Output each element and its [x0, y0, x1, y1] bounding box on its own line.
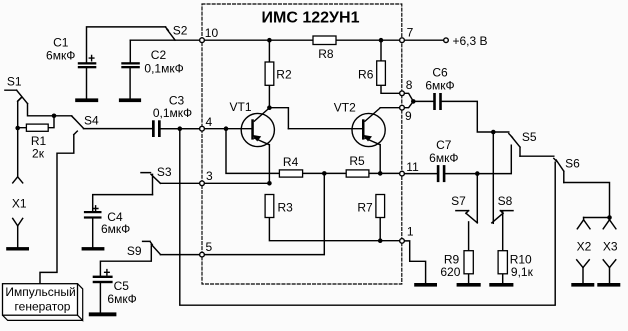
node R1 top: [52, 114, 57, 119]
svg-text:S6: S6: [565, 156, 580, 170]
wire C4 ground stem: [92, 219, 94, 248]
node VT1 emitter pin3: [267, 181, 272, 186]
ground C1: [75, 98, 98, 102]
resistor R8: [313, 36, 336, 45]
svg-text:3: 3: [206, 169, 213, 183]
wire C2 ground stem: [129, 68, 131, 98]
svg-text:S7: S7: [451, 194, 466, 208]
ground C4: [82, 247, 105, 250]
wire top rail pin10-pin7: [130, 39, 402, 41]
capacitor C2 plates: [121, 62, 140, 64]
resistor R9: [464, 251, 473, 274]
svg-text:+6,3 В: +6,3 В: [453, 34, 488, 48]
switch S1: [5, 90, 28, 103]
node R7 bottom: [378, 238, 383, 243]
switch S6: [554, 158, 564, 182]
wire R3 R7 emitter rail: [269, 218, 399, 241]
wire pin9 ext: [405, 101, 414, 107]
resistor R2: [265, 62, 274, 85]
wire C3 to pin4: [161, 128, 200, 130]
svg-text:S5: S5: [522, 130, 537, 144]
svg-text:2к: 2к: [32, 146, 45, 160]
node S5 in: [491, 130, 496, 135]
svg-text:8: 8: [406, 78, 413, 92]
terminal +6.3V: [444, 38, 449, 43]
wire VT2 emitter drop: [379, 145, 381, 174]
ground R9: [457, 283, 481, 287]
ground R10: [489, 283, 513, 287]
wire S5 node to S8: [492, 132, 494, 223]
wire pin3 rail: [160, 182, 269, 184]
wire VT2 base rail: [288, 128, 362, 130]
svg-text:5: 5: [206, 240, 213, 254]
pin 1: [400, 239, 405, 244]
capacitor C7 plates: [437, 165, 440, 182]
svg-text:6мкФ: 6мкФ: [46, 49, 75, 63]
pin 5: [200, 252, 205, 257]
pin 4: [200, 126, 205, 131]
svg-text:C2: C2: [151, 48, 167, 62]
resistor R5: [346, 170, 369, 177]
ground C2: [119, 98, 141, 102]
wire pin7 to +6.3V terminal: [405, 39, 444, 41]
svg-text:1: 1: [407, 224, 414, 238]
wire R2 branch: [268, 40, 270, 108]
svg-text:R6: R6: [358, 67, 374, 81]
svg-text:0,1мкФ: 0,1мкФ: [144, 62, 183, 76]
connector X2 pin: [577, 260, 590, 283]
svg-text:S9: S9: [127, 244, 142, 258]
pin 7: [400, 38, 405, 43]
node VT2 emitter pin11: [378, 171, 383, 176]
node VT1 collector: [267, 105, 272, 110]
wire R9 ground stem: [468, 274, 470, 283]
wire S1 to S4: [28, 104, 72, 116]
connector X2 socket: [577, 218, 590, 229]
pin 10: [200, 38, 205, 43]
ground X1: [6, 247, 29, 250]
resistor R10: [498, 251, 507, 274]
resistor R6: [377, 61, 386, 85]
wire C2 riser: [129, 40, 131, 62]
svg-text:R7: R7: [357, 201, 373, 215]
svg-text:генератор: генератор: [15, 300, 71, 314]
wire C7 node to S7: [476, 174, 478, 223]
node R1 left: [15, 126, 20, 131]
svg-text:6мкФ: 6мкФ: [107, 292, 136, 306]
svg-text:X1: X1: [12, 196, 27, 210]
svg-text:ИМС 122УН1: ИМС 122УН1: [262, 9, 360, 26]
svg-text:9,1к: 9,1к: [511, 265, 534, 279]
wire C7 right to S5 lower contact: [445, 145, 511, 173]
pin 3: [200, 181, 205, 186]
ground X2: [571, 283, 594, 287]
resistor R1 wires: [18, 116, 54, 128]
svg-text:Импульсный: Импульсный: [5, 285, 75, 299]
wire R4R5 mid to pin5: [205, 173, 325, 254]
svg-text:VT1: VT1: [229, 100, 251, 114]
svg-text:R4: R4: [283, 155, 299, 169]
svg-text:R3: R3: [278, 201, 294, 215]
svg-text:11: 11: [406, 160, 419, 174]
resistor R7: [376, 195, 385, 218]
svg-text:6мкФ: 6мкФ: [429, 151, 458, 165]
wire VT1 base rail from pin4: [161, 128, 252, 130]
wire S6 to X2 X3: [564, 183, 610, 218]
wire pin8 ext: [405, 93, 414, 101]
wire R6 branch to pin 8: [381, 40, 399, 93]
svg-text:S8: S8: [498, 194, 513, 208]
svg-text:R8: R8: [318, 47, 334, 61]
wire R5 right to pin 11: [369, 172, 400, 174]
switch S2: [166, 27, 176, 40]
svg-text:620: 620: [440, 265, 460, 279]
svg-text:S4: S4: [84, 113, 99, 127]
connector X3 socket: [603, 218, 616, 229]
pin 8: [400, 91, 405, 96]
svg-text:R2: R2: [276, 67, 292, 81]
svg-text:X3: X3: [603, 239, 618, 253]
transistor VT1: [241, 108, 274, 147]
wire S8 to R10: [502, 212, 504, 251]
switch S8: [492, 211, 513, 223]
svg-text:X2: X2: [577, 239, 592, 253]
node C3 out: [178, 126, 183, 131]
svg-text:10: 10: [205, 26, 219, 40]
svg-text:6мкФ: 6мкФ: [425, 78, 454, 92]
wire S5 to S6: [520, 155, 554, 157]
svg-text:S2: S2: [173, 24, 188, 38]
capacitor C5 plates: [93, 276, 113, 278]
wire X1 riser: [18, 98, 22, 177]
wire C1 ground stem: [86, 68, 88, 98]
wire VT1 collector link to VT2 base: [269, 108, 288, 129]
resistor R4: [279, 170, 302, 177]
node top rail R2: [267, 38, 272, 43]
wire S7 to R9: [468, 222, 470, 251]
svg-text:VT2: VT2: [334, 101, 356, 115]
wire C5 ground stem: [99, 283, 101, 312]
capacitor C3 plates: [152, 120, 155, 137]
wire R4-R5 link: [303, 172, 347, 174]
node C6 in: [411, 99, 416, 104]
wire VT2 collector to pin 9: [380, 107, 399, 109]
svg-text:R5: R5: [349, 154, 365, 168]
connector X3 pin: [603, 260, 616, 283]
wire S9 to pin5: [160, 254, 199, 256]
wire S9 contact to C5: [100, 246, 151, 276]
wire S4 lower contact to generator: [40, 131, 77, 284]
wire S4 to C3: [84, 128, 153, 130]
capacitor C6 plates: [433, 93, 436, 110]
wire C6 right to S5: [442, 101, 509, 132]
ground pin1: [414, 283, 437, 287]
switch S5: [509, 134, 520, 157]
IC dashed box: [202, 4, 402, 284]
connector X1 socket: [13, 177, 23, 183]
switch S3: [141, 173, 160, 195]
resistor R3: [265, 195, 274, 218]
svg-text:4: 4: [206, 115, 213, 129]
wire C6 left: [413, 100, 433, 102]
svg-text:S1: S1: [7, 75, 22, 89]
connector X1 pin: [13, 218, 23, 247]
svg-text:C5: C5: [114, 279, 130, 293]
switch S4: [72, 116, 84, 128]
ground X3: [597, 283, 620, 287]
svg-text:C1: C1: [53, 35, 69, 49]
pin 9: [400, 105, 405, 110]
node C7 out: [475, 171, 480, 176]
node base riser: [224, 126, 229, 131]
transistor VT2: [352, 108, 385, 147]
switch S7: [456, 211, 477, 223]
wire VT1 emitter drop: [268, 145, 270, 184]
node top rail R6: [379, 38, 384, 43]
wire S3 to C4: [93, 195, 153, 211]
switch S9: [143, 241, 161, 254]
generator box: [3, 284, 83, 321]
wire pin1 to ground: [405, 241, 426, 283]
resistor R1: [26, 124, 48, 131]
wire pin11 to C7: [405, 173, 437, 175]
svg-text:0,1мкФ: 0,1мкФ: [153, 106, 192, 120]
ground C5: [89, 312, 117, 316]
wire base-R4 riser: [226, 129, 279, 174]
node X3 top: [607, 215, 612, 220]
node R4 R5 mid: [322, 171, 327, 176]
capacitor C1 plates: [78, 62, 97, 64]
wire C1 top: [87, 27, 166, 62]
svg-text:7: 7: [407, 26, 414, 40]
svg-text:S3: S3: [157, 165, 172, 179]
wire feedback pin4 node to S6 contact: [180, 129, 555, 306]
svg-text:9: 9: [405, 109, 412, 123]
wire R10 ground stem: [502, 274, 504, 283]
pin 11: [400, 171, 405, 176]
capacitor C4 plates: [84, 211, 102, 213]
svg-text:6мкФ: 6мкФ: [101, 222, 130, 236]
